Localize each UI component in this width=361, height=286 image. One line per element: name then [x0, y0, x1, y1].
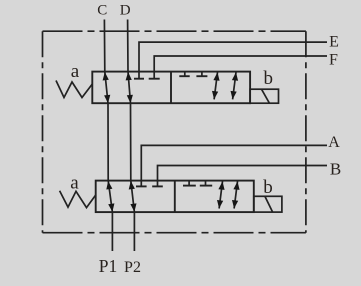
valve V2 blocked stub 1 (right square) — [188, 181, 190, 186]
valve V1 blocked stub 1 (right square) — [184, 72, 186, 77]
valve V2 flow arrow head up (left square, line D) — [129, 181, 135, 190]
valve V2 blocked stub 1 cap — [183, 185, 196, 187]
valve V1 body (top directional valve) — [92, 72, 250, 104]
valve V2 flow arrow head down (left square, line D) — [130, 203, 136, 212]
wire A — [141, 145, 327, 186]
valve V1 blocked stub 2 cap — [196, 75, 207, 77]
blocked port cap B — [152, 185, 163, 187]
svg-text:C: C — [97, 3, 107, 19]
wire F — [154, 56, 327, 79]
valve V1 double arrow 4 (right square) — [231, 72, 239, 99]
valve V1 solenoid b box — [250, 89, 278, 103]
valve V2 body (bottom directional valve) — [96, 181, 254, 213]
blocked port cap F — [149, 78, 160, 80]
valve V1 flow arrow head up (left square, line D) — [126, 72, 132, 80]
svg-text:b: b — [263, 177, 273, 198]
wire E — [139, 42, 327, 79]
valve V2 flow arrow head up (left square, line C) — [106, 181, 112, 190]
valve V1 spring — [56, 81, 92, 98]
valve V2 solenoid diagonal — [265, 197, 273, 212]
valve V2 solenoid b box — [254, 196, 282, 212]
valve V1 blocked stub 2 (right square) — [201, 72, 203, 77]
valve V1 blocked stub 1 cap — [179, 75, 189, 77]
valve V2 double arrow 4 (right square) — [232, 181, 240, 208]
wire B — [158, 166, 328, 187]
svg-text:E: E — [329, 34, 339, 51]
blocked port cap A — [136, 185, 147, 187]
valve V2 blocked stub 2 (right square) — [205, 181, 207, 186]
valve V1 flow arrow head up (left square, line C) — [103, 72, 109, 81]
valve V1 solenoid diagonal — [262, 89, 270, 103]
valve V2 flow arrow head down (left square, line C) — [108, 203, 114, 212]
valve V2 spring — [60, 191, 96, 208]
valve V1 flow arrow head down (left square, line C) — [104, 95, 110, 104]
wire C to P1 (through line) — [104, 20, 112, 252]
svg-text:D: D — [120, 3, 131, 19]
svg-text:P2: P2 — [124, 259, 141, 276]
valve V1 flow arrow head down (left square, line D) — [127, 95, 133, 103]
valve V1 position divider — [170, 72, 172, 104]
blocked port cap E — [134, 78, 144, 80]
svg-text:a: a — [71, 61, 80, 82]
svg-text:B: B — [330, 159, 341, 178]
svg-text:b: b — [264, 68, 274, 89]
enclosure dashed boundary box — [43, 31, 306, 233]
valve V2 blocked stub 2 cap — [200, 185, 212, 187]
svg-text:P1: P1 — [99, 256, 117, 276]
valve V2 position divider — [174, 181, 176, 213]
valve V1 double arrow 3 (right square) — [212, 72, 220, 99]
wire D to P2 (through line) — [128, 20, 135, 252]
svg-text:A: A — [328, 134, 340, 151]
svg-text:a: a — [70, 173, 79, 194]
valve V2 double arrow 3 (right square) — [217, 181, 225, 208]
svg-text:F: F — [329, 51, 338, 68]
